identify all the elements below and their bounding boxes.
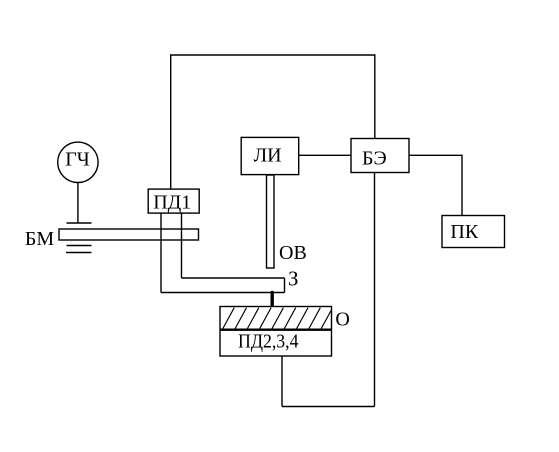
- rod ОВ (narrow bar under ЛИ): [267, 175, 275, 268]
- wire lower horizontal to З: [161, 292, 285, 294]
- svg-text:ПД1: ПД1: [153, 191, 191, 213]
- block ЛИ: [241, 137, 299, 174]
- wire down to ПК: [461, 155, 463, 215]
- wire ПД2,3,4 bottom vertical: [281, 356, 283, 407]
- wire down to БЭ top: [374, 54, 376, 138]
- top plate bar: [67, 222, 92, 224]
- svg-text:З: З: [288, 266, 299, 290]
- wire from ГЧ down: [77, 182, 79, 223]
- probe З (thick tick): [271, 293, 274, 305]
- svg-text:БМ: БМ: [25, 228, 54, 250]
- wire ПД1 top vertical: [170, 55, 172, 190]
- block БМ (long bar): [59, 229, 199, 240]
- svg-text:ОВ: ОВ: [279, 242, 307, 264]
- svg-text:ПД2,3,4: ПД2,3,4: [238, 331, 299, 353]
- svg-text:ПК: ПК: [450, 221, 478, 243]
- wire ЛИ to БЭ: [299, 154, 351, 156]
- wire bottom horizontal: [282, 406, 375, 408]
- bottom plate line 1: [67, 245, 92, 247]
- block ПД2,3,4: [220, 330, 332, 356]
- wire ПД1 left leg: [160, 213, 162, 293]
- wire up to БЭ bottom: [374, 173, 376, 407]
- wire upper horizontal to З: [182, 277, 285, 279]
- block ПД1: [148, 189, 199, 213]
- sample О (hatched box): [220, 307, 332, 330]
- svg-text:ЛИ: ЛИ: [254, 144, 282, 166]
- block ПК: [442, 216, 505, 248]
- wire joining vertical at З: [284, 278, 286, 293]
- wire БЭ right horizontal: [409, 154, 463, 156]
- block ГЧ (circle): [58, 142, 98, 182]
- svg-text:О: О: [335, 308, 349, 330]
- wire top horizontal: [170, 54, 375, 56]
- block БЭ: [351, 139, 409, 173]
- wire ПД1 right leg: [181, 213, 183, 278]
- svg-text:БЭ: БЭ: [362, 148, 387, 170]
- bottom plate line 2: [66, 252, 92, 254]
- svg-text:ГЧ: ГЧ: [65, 148, 90, 170]
